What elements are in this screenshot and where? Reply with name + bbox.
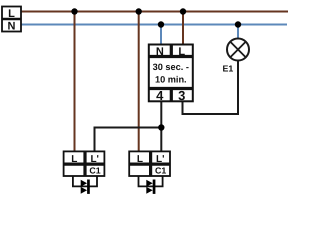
relay U1 timer box — [149, 45, 193, 104]
wire N line (blue) — [21, 24, 287, 26]
pushbutton switch C1 (right) — [129, 151, 170, 194]
svg-text:L: L — [71, 154, 77, 165]
node junction L/left-switch — [71, 8, 77, 14]
svg-text:30 sec. -: 30 sec. - — [153, 62, 189, 72]
wire brown drop to right switch L — [138, 12, 140, 153]
wire blue drop to relay N terminal — [160, 25, 162, 46]
wire relay terminal 4 down to right switch L' — [160, 102, 162, 152]
svg-text:N: N — [156, 46, 164, 58]
svg-text:C1: C1 — [89, 166, 100, 176]
svg-text:C1: C1 — [155, 166, 166, 176]
node junction L/right-switch — [136, 8, 142, 14]
bracket — [139, 176, 163, 186]
lamp E1 — [223, 39, 250, 74]
wire lamp to relay terminal 3 — [183, 61, 239, 115]
button symbol — [146, 180, 152, 187]
svg-text:E1: E1 — [223, 64, 234, 74]
node junction N/lamp — [235, 21, 241, 27]
svg-text:L: L — [137, 154, 143, 165]
svg-text:L: L — [8, 8, 15, 20]
wire blue drop to lamp E1 — [237, 25, 239, 40]
svg-text:L': L' — [156, 154, 165, 165]
bracket — [73, 176, 97, 186]
node junction terminal4/L' branch — [158, 124, 164, 130]
supply box L/N — [2, 7, 21, 33]
node junction L/relay — [180, 8, 186, 14]
svg-text:L: L — [178, 46, 185, 58]
svg-text:N: N — [8, 21, 16, 33]
svg-text:10 min.: 10 min. — [155, 75, 187, 85]
svg-text:L': L' — [90, 154, 99, 165]
wire L line (brown) — [21, 11, 288, 13]
node junction N/relay — [158, 21, 164, 27]
wire brown drop to relay L terminal — [182, 12, 184, 46]
svg-text:3: 3 — [178, 88, 185, 103]
wire branch to left switch L' — [95, 128, 162, 153]
pushbutton switch C1 (left) — [64, 151, 105, 194]
button symbol — [81, 180, 87, 187]
svg-text:4: 4 — [156, 88, 164, 103]
wire brown drop to left switch L — [74, 12, 76, 153]
